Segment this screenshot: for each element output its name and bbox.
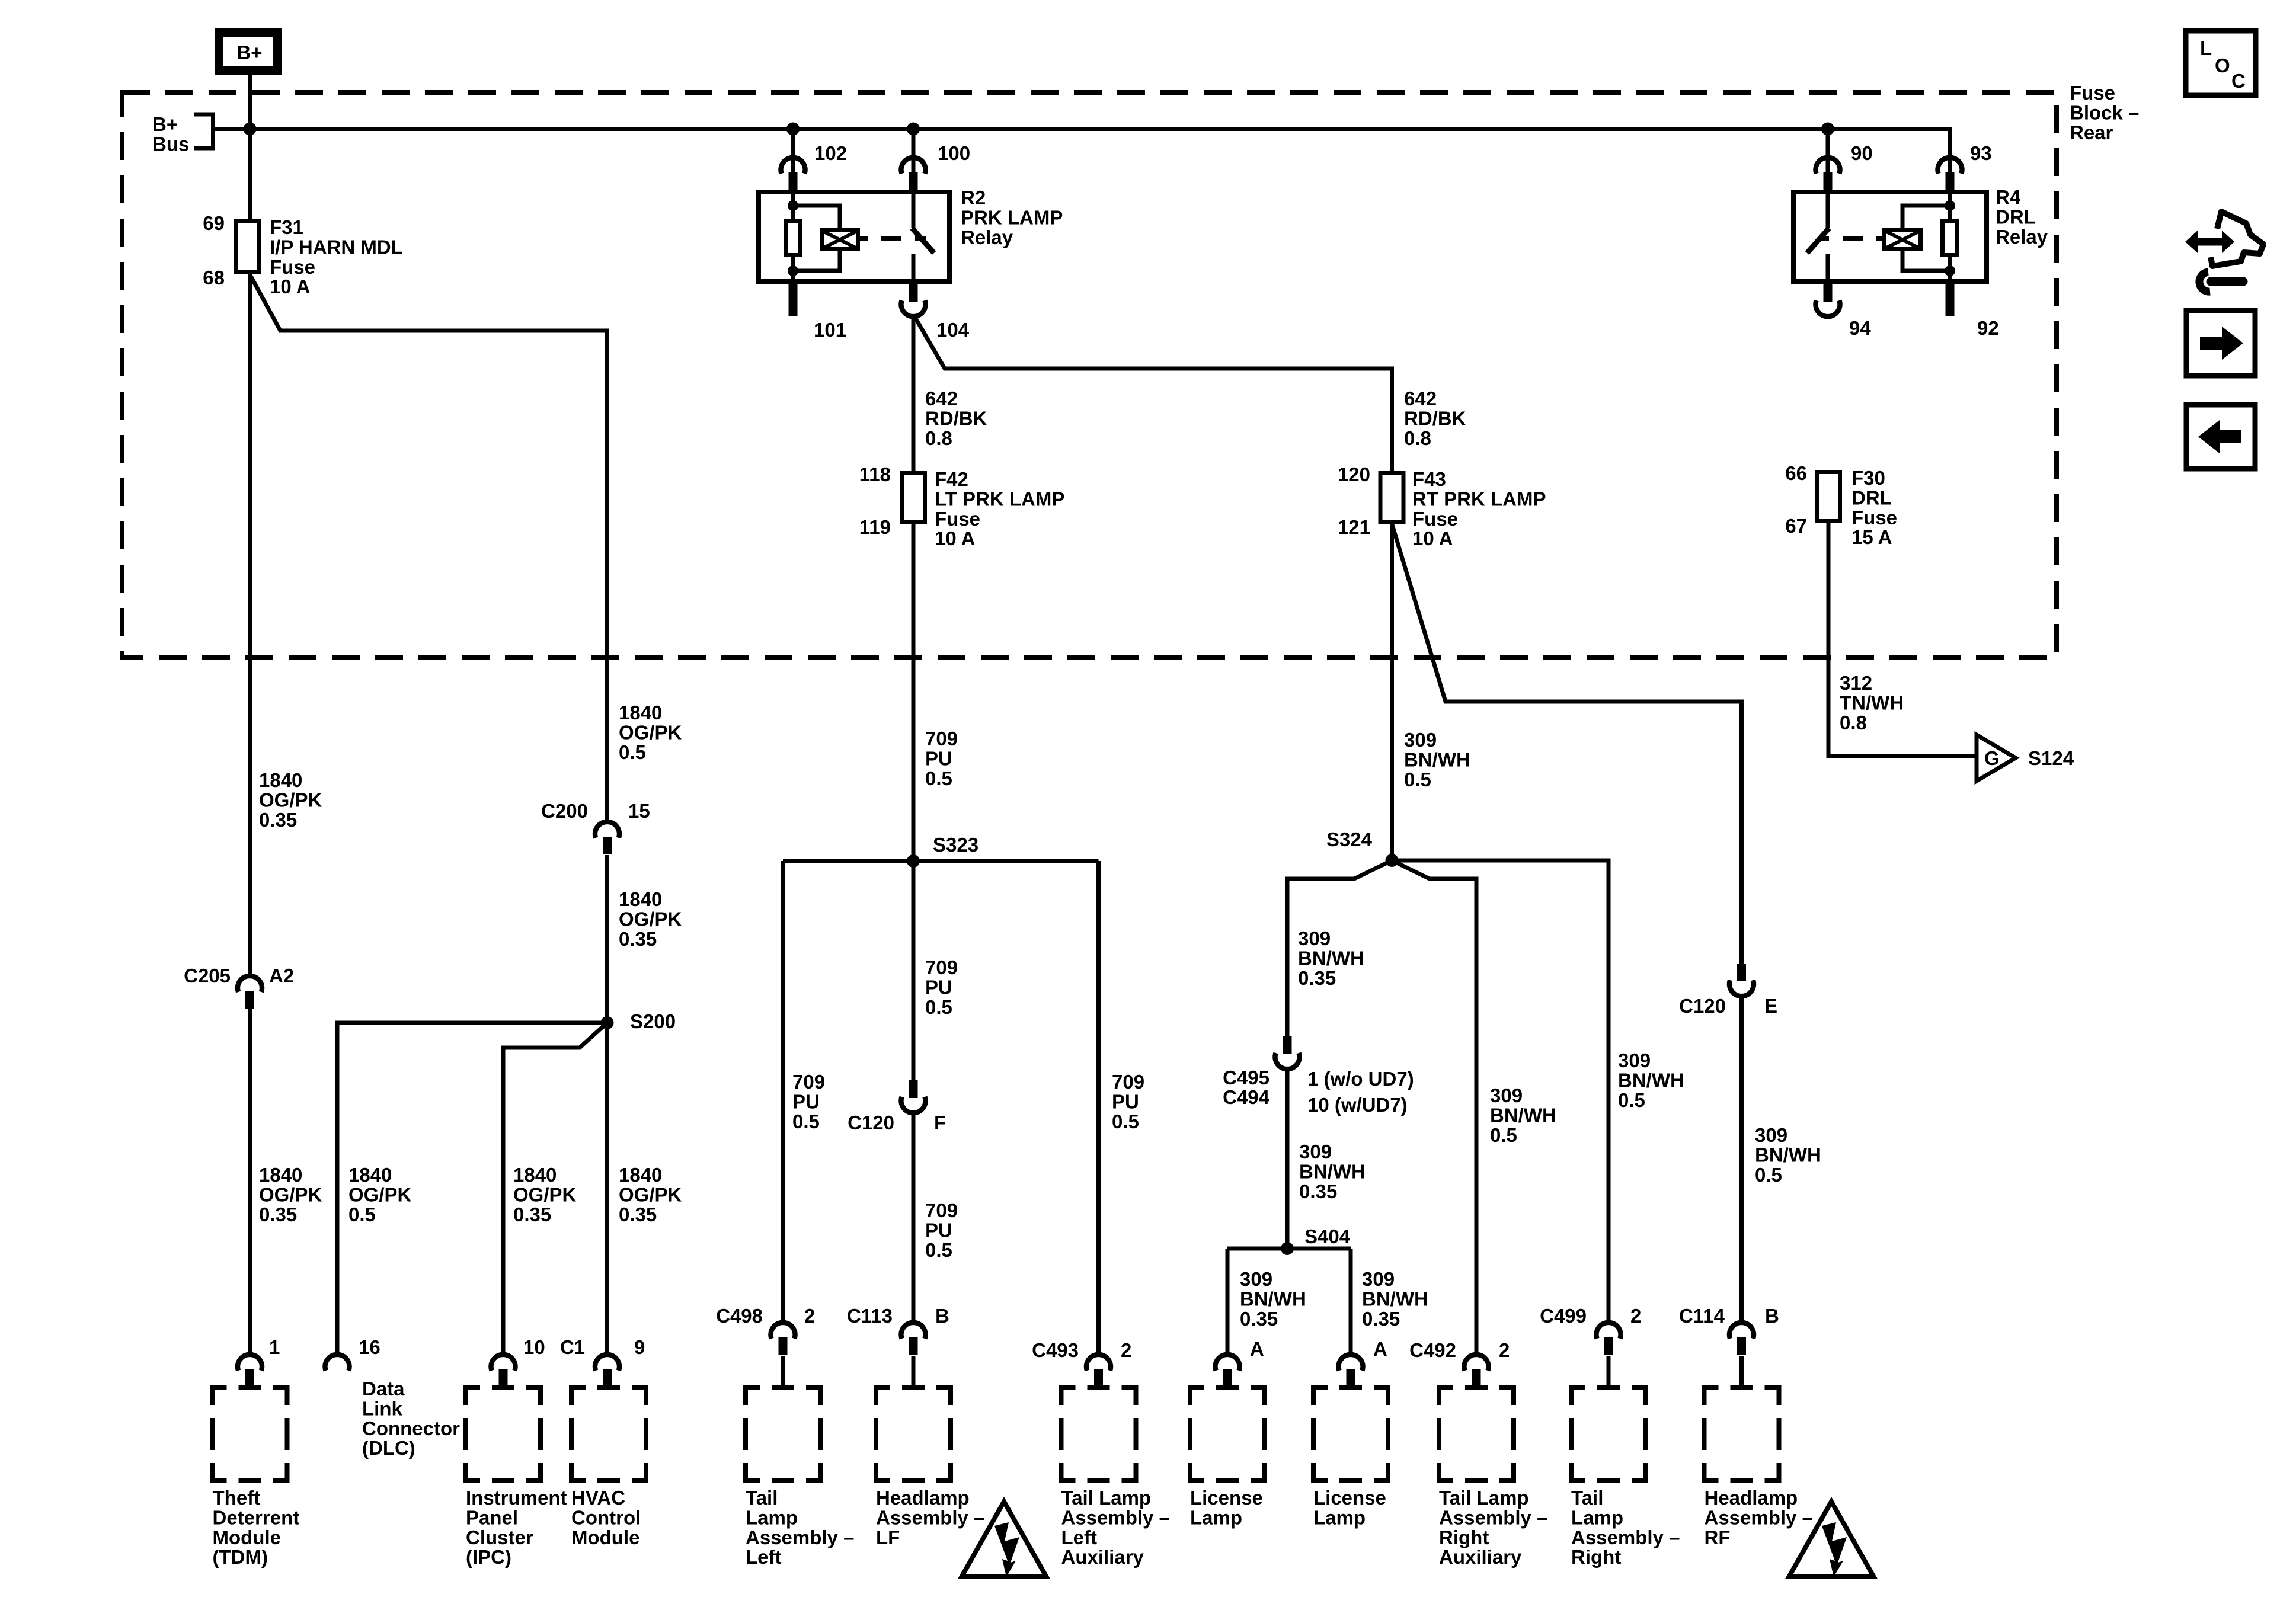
svg-text:Right: Right bbox=[1439, 1526, 1489, 1548]
label C492 bbox=[1409, 1339, 1456, 1361]
fuse F30 bbox=[1817, 472, 1840, 521]
svg-text:Lamp: Lamp bbox=[1190, 1506, 1242, 1528]
label Theft Deterrent Module (TDM) bbox=[213, 1487, 300, 1568]
label IPC pin 10 bbox=[523, 1336, 545, 1358]
wire S200 to HVAC bbox=[605, 1023, 609, 1355]
svg-text:90: 90 bbox=[1851, 142, 1873, 164]
svg-text:(DLC): (DLC) bbox=[362, 1437, 415, 1459]
warning triangle headlamp RF bbox=[1789, 1502, 1873, 1577]
svg-text:Assembly –: Assembly – bbox=[1439, 1506, 1547, 1528]
label Fuse Block - Rear bbox=[2070, 82, 2139, 143]
relay R4 coil bbox=[1885, 206, 1950, 271]
pin 94 label bbox=[1849, 317, 1871, 339]
pin 100 label bbox=[938, 142, 970, 164]
pin 121 label bbox=[1338, 516, 1370, 538]
wire 709 PU S323 to C498 bbox=[781, 861, 785, 1323]
pin 69 label bbox=[203, 212, 225, 234]
svg-text:Assembly –: Assembly – bbox=[1705, 1506, 1813, 1528]
svg-text:15 A: 15 A bbox=[1851, 526, 1892, 548]
svg-text:Assembly –: Assembly – bbox=[1571, 1526, 1680, 1548]
svg-text:F30: F30 bbox=[1851, 467, 1885, 489]
svg-text:(IPC): (IPC) bbox=[466, 1546, 511, 1568]
svg-text:0.5: 0.5 bbox=[1618, 1089, 1645, 1111]
svg-text:LT PRK LAMP: LT PRK LAMP bbox=[935, 488, 1064, 510]
svg-text:104: 104 bbox=[936, 319, 970, 341]
label 709 PU 0.5 left leg bbox=[792, 1071, 825, 1132]
svg-text:2: 2 bbox=[804, 1305, 815, 1327]
Tail Lamp Assembly Left box bbox=[746, 1388, 820, 1480]
svg-text:0.35: 0.35 bbox=[1299, 1180, 1337, 1202]
label TDM pin 1 bbox=[269, 1336, 280, 1358]
label C493 bbox=[1032, 1339, 1079, 1361]
label 1840 OG/PK 0.35 TDM upper bbox=[259, 769, 322, 831]
icon service manual arrow-wrench bbox=[2185, 212, 2263, 292]
connector C498 pin 2 bbox=[771, 1323, 795, 1386]
svg-text:Tail Lamp: Tail Lamp bbox=[1439, 1487, 1529, 1509]
svg-text:OG/PK: OG/PK bbox=[513, 1183, 577, 1205]
svg-text:309: 309 bbox=[1298, 927, 1331, 949]
svg-text:C492: C492 bbox=[1409, 1339, 1456, 1361]
label HVAC C1 bbox=[560, 1336, 585, 1358]
B+ Bus bracket bbox=[194, 114, 213, 148]
svg-text:93: 93 bbox=[1970, 142, 1992, 164]
svg-text:B+: B+ bbox=[236, 41, 262, 63]
label DLC pin 16 bbox=[359, 1336, 380, 1358]
pin 93 label bbox=[1970, 142, 1992, 164]
svg-text:Auxiliary: Auxiliary bbox=[1061, 1546, 1144, 1568]
label 1840 OG/PK 0.35 TDM lower bbox=[259, 1164, 322, 1225]
connector C493 pin 2 bbox=[1086, 1355, 1111, 1387]
label pin 10 w/UD7 bbox=[1307, 1094, 1408, 1116]
svg-text:0.35: 0.35 bbox=[259, 809, 297, 831]
svg-text:B: B bbox=[1765, 1305, 1779, 1327]
label F30 DRL Fuse 15 A bbox=[1851, 467, 1897, 548]
fuse block dashed outline bbox=[122, 92, 2057, 658]
wire S404 to license lamp left bbox=[1226, 1249, 1230, 1355]
wire 1840 OG/PK C200 to S200 bbox=[605, 855, 609, 1023]
junction dot bus at pin 90 bbox=[1821, 123, 1834, 136]
pin 68 label bbox=[203, 267, 225, 289]
pin 102 label bbox=[814, 142, 847, 164]
svg-text:C1: C1 bbox=[560, 1336, 585, 1358]
pin 118 label bbox=[859, 463, 891, 485]
wire bus to pin 100 bbox=[912, 129, 916, 172]
svg-text:F42: F42 bbox=[935, 468, 968, 490]
svg-text:S200: S200 bbox=[630, 1010, 676, 1032]
wire S324 right leg to C492 bbox=[1392, 860, 1477, 1355]
label C492 pin 2 bbox=[1499, 1339, 1510, 1361]
relay R4 junction dot top bbox=[1945, 200, 1955, 211]
svg-text:OG/PK: OG/PK bbox=[619, 1183, 682, 1205]
relay R4 actuator dashed link bbox=[1818, 236, 1884, 241]
fuse F42 bbox=[902, 473, 925, 523]
svg-text:BN/WH: BN/WH bbox=[1618, 1069, 1684, 1091]
svg-text:642: 642 bbox=[1404, 388, 1437, 409]
splice S404 bbox=[1281, 1242, 1294, 1255]
svg-text:C114: C114 bbox=[1679, 1305, 1725, 1327]
svg-text:C120: C120 bbox=[848, 1112, 894, 1134]
svg-text:HVAC: HVAC bbox=[571, 1487, 625, 1509]
connector C205 pin A2 bbox=[238, 976, 262, 1009]
label Data Link Connector (DLC) bbox=[362, 1378, 460, 1459]
svg-text:309: 309 bbox=[1299, 1141, 1332, 1163]
svg-text:0.5: 0.5 bbox=[1755, 1164, 1782, 1186]
warning triangle headlamp LF bbox=[962, 1502, 1046, 1577]
label C120 E bbox=[1679, 995, 1726, 1017]
svg-text:Left: Left bbox=[1061, 1526, 1098, 1548]
label C498 pin 2 bbox=[804, 1305, 815, 1327]
svg-text:BN/WH: BN/WH bbox=[1404, 748, 1470, 770]
label 309 BN/WH 0.5 above S324 bbox=[1404, 729, 1470, 790]
svg-text:10 (w/UD7): 10 (w/UD7) bbox=[1307, 1094, 1408, 1116]
svg-text:B+: B+ bbox=[152, 113, 178, 135]
svg-text:Module: Module bbox=[213, 1526, 281, 1548]
wire B+ feed down to fuse F31 bbox=[248, 75, 252, 219]
svg-text:1840: 1840 bbox=[259, 1164, 302, 1186]
svg-text:Rear: Rear bbox=[2070, 121, 2113, 143]
label 309 BN/WH 0.35 above C495 bbox=[1298, 927, 1364, 989]
svg-text:OG/PK: OG/PK bbox=[619, 721, 682, 743]
svg-text:1840: 1840 bbox=[619, 888, 662, 910]
wire S200 to DLC bbox=[337, 1023, 607, 1355]
svg-text:309: 309 bbox=[1490, 1084, 1523, 1106]
connector C499 pin 2 bbox=[1597, 1323, 1621, 1386]
relay R2 actuator dashed link bbox=[860, 236, 926, 241]
svg-text:PRK LAMP: PRK LAMP bbox=[961, 206, 1063, 228]
label 1840 OG/PK 0.35 mid bbox=[619, 888, 682, 950]
label pin F bbox=[934, 1112, 946, 1134]
wire S324 left leg to C495 bbox=[1287, 860, 1392, 1036]
junction dot B+ bus at F31 bbox=[244, 123, 257, 136]
label 309 BN/WH 0.35 license left bbox=[1240, 1268, 1306, 1330]
label C113 bbox=[847, 1305, 893, 1327]
svg-text:1840: 1840 bbox=[348, 1164, 392, 1186]
label Tail Lamp Assembly Right bbox=[1571, 1487, 1680, 1568]
svg-text:Bus: Bus bbox=[152, 133, 189, 155]
svg-text:9: 9 bbox=[634, 1336, 645, 1358]
svg-text:0.5: 0.5 bbox=[792, 1110, 820, 1132]
label License Lamp right bbox=[1313, 1487, 1386, 1528]
connector HVAC C1 pin 9 bbox=[595, 1355, 619, 1387]
License Lamp right box bbox=[1313, 1388, 1388, 1480]
label S200 bbox=[630, 1010, 676, 1032]
svg-text:0.5: 0.5 bbox=[925, 767, 952, 789]
svg-text:License: License bbox=[1190, 1487, 1263, 1509]
label R2 PRK LAMP Relay bbox=[961, 187, 1063, 248]
label C499 pin 2 bbox=[1630, 1305, 1641, 1327]
pin 67 label bbox=[1785, 515, 1807, 537]
svg-text:BN/WH: BN/WH bbox=[1755, 1144, 1821, 1166]
label HVAC pin 9 bbox=[634, 1336, 645, 1358]
svg-text:1840: 1840 bbox=[619, 702, 662, 724]
label 709 PU 0.5 below C120F bbox=[925, 1199, 958, 1261]
svg-text:309: 309 bbox=[1618, 1049, 1651, 1071]
label S124 bbox=[2028, 747, 2074, 769]
svg-text:BN/WH: BN/WH bbox=[1240, 1288, 1306, 1310]
svg-text:0.35: 0.35 bbox=[619, 1204, 657, 1225]
label B+ Bus bbox=[152, 113, 189, 155]
relay R2 junction dot top bbox=[788, 200, 798, 211]
License Lamp left box bbox=[1190, 1388, 1265, 1480]
wire 1840 OG/PK F31 to C205 bbox=[248, 274, 252, 977]
label 309 BN/WH 0.5 tail right bbox=[1618, 1049, 1684, 1111]
connector TDM pin 1 bbox=[238, 1355, 262, 1387]
wire bus to pin 102 bbox=[791, 129, 795, 172]
label C114 pin B bbox=[1765, 1305, 1779, 1327]
svg-text:0.5: 0.5 bbox=[1490, 1124, 1517, 1146]
relay R2 switch contacts bbox=[912, 192, 916, 281]
svg-text:Auxiliary: Auxiliary bbox=[1439, 1546, 1522, 1568]
svg-text:C120: C120 bbox=[1679, 995, 1726, 1017]
label Tail Lamp Assembly Left Auxiliary bbox=[1061, 1487, 1170, 1568]
Theft Deterrent Module (TDM) box bbox=[213, 1388, 287, 1480]
connector C113 pin B bbox=[901, 1323, 926, 1386]
wire S404 to license lamp right bbox=[1349, 1249, 1353, 1355]
svg-text:Link: Link bbox=[362, 1397, 402, 1419]
wire S404 horizontal bbox=[1227, 1247, 1351, 1251]
HVAC Control Module box bbox=[571, 1388, 646, 1480]
label C493 pin 2 bbox=[1121, 1339, 1131, 1361]
svg-text:101: 101 bbox=[814, 319, 846, 341]
label F31 I/P HARN MDL Fuse 10 A bbox=[270, 216, 403, 297]
svg-text:Right: Right bbox=[1571, 1546, 1621, 1568]
label pin A2 bbox=[269, 965, 294, 987]
pin 93 connector bbox=[1938, 158, 1962, 190]
svg-text:C: C bbox=[2231, 70, 2246, 92]
svg-text:PU: PU bbox=[925, 976, 952, 998]
svg-text:BN/WH: BN/WH bbox=[1299, 1160, 1366, 1182]
svg-text:Tail Lamp: Tail Lamp bbox=[1061, 1487, 1152, 1509]
svg-text:OG/PK: OG/PK bbox=[259, 789, 322, 811]
label 309 BN/WH 0.5 above C120E bbox=[1755, 1124, 1821, 1186]
svg-text:67: 67 bbox=[1785, 515, 1807, 537]
svg-text:642: 642 bbox=[925, 388, 958, 409]
pin 92 label bbox=[1977, 317, 1999, 339]
label S404 bbox=[1304, 1225, 1351, 1247]
svg-text:2: 2 bbox=[1121, 1339, 1131, 1361]
label 312 TN/WH 0.8 bbox=[1840, 672, 1904, 734]
wire 709 PU F42 to S323 bbox=[912, 524, 916, 1080]
wire 309 BN/WH C495 to S404 bbox=[1285, 1068, 1290, 1249]
svg-text:Fuse: Fuse bbox=[2070, 82, 2115, 104]
relay R4 junction dot bottom bbox=[1945, 265, 1955, 276]
svg-text:Lamp: Lamp bbox=[1313, 1506, 1366, 1528]
label 709 PU 0.5 right leg bbox=[1112, 1071, 1144, 1132]
connector C120 pin F bbox=[901, 1080, 926, 1113]
svg-text:RF: RF bbox=[1705, 1526, 1731, 1548]
svg-text:Fuse: Fuse bbox=[270, 256, 315, 278]
svg-text:PU: PU bbox=[792, 1090, 820, 1112]
svg-text:0.5: 0.5 bbox=[925, 1239, 952, 1261]
svg-text:0.35: 0.35 bbox=[1298, 967, 1336, 989]
svg-text:709: 709 bbox=[925, 956, 958, 978]
pin 120 label bbox=[1338, 463, 1370, 485]
pin 90 connector bbox=[1816, 158, 1840, 190]
svg-text:15: 15 bbox=[628, 800, 650, 822]
label C495 C494 bbox=[1223, 1067, 1270, 1108]
svg-text:120: 120 bbox=[1338, 463, 1370, 485]
icon next page arrow bbox=[2186, 311, 2255, 376]
label C498 bbox=[716, 1305, 763, 1327]
label C200 bbox=[541, 800, 588, 822]
wire B+ bus bbox=[213, 127, 1952, 172]
label 642 RD/BK 0.8 right bbox=[1404, 388, 1466, 449]
label 1840 OG/PK 0.35 IPC bbox=[513, 1164, 577, 1225]
svg-text:PU: PU bbox=[925, 747, 952, 769]
splice S323 bbox=[907, 854, 920, 868]
relay R2 switch blade bbox=[912, 228, 934, 253]
svg-text:S124: S124 bbox=[2028, 747, 2074, 769]
Instrument Panel Cluster (IPC) box bbox=[466, 1388, 541, 1480]
splice S200 bbox=[601, 1016, 614, 1029]
relay R2 junction dot bottom bbox=[788, 265, 798, 276]
label License Lamp left bbox=[1190, 1487, 1263, 1528]
svg-text:1: 1 bbox=[269, 1336, 280, 1358]
svg-text:F: F bbox=[934, 1112, 946, 1134]
svg-text:RT PRK LAMP: RT PRK LAMP bbox=[1412, 488, 1546, 510]
label F43 RT PRK LAMP Fuse 10 A bbox=[1412, 468, 1546, 549]
label C113 pin B bbox=[935, 1305, 949, 1327]
fuse F31 bbox=[236, 222, 259, 273]
svg-text:0.5: 0.5 bbox=[1112, 1110, 1139, 1132]
label Tail Lamp Assembly Left bbox=[746, 1487, 854, 1568]
wire 709 PU S323 to C493 bbox=[1096, 861, 1101, 1355]
svg-text:RD/BK: RD/BK bbox=[925, 407, 987, 429]
pin 104 label bbox=[936, 319, 970, 341]
svg-text:Instrument: Instrument bbox=[466, 1487, 567, 1509]
Tail Lamp Assembly Left Auxiliary box bbox=[1061, 1388, 1136, 1480]
svg-text:LF: LF bbox=[876, 1526, 900, 1548]
wire S323 horizontal bbox=[783, 859, 1099, 863]
svg-text:119: 119 bbox=[859, 516, 891, 538]
svg-text:0.35: 0.35 bbox=[1240, 1308, 1278, 1330]
relay R2 box bbox=[759, 192, 949, 281]
svg-text:S323: S323 bbox=[933, 834, 978, 856]
wire 1840 OG/PK C205 to TDM bbox=[248, 1009, 252, 1355]
label HVAC Control Module bbox=[571, 1487, 641, 1548]
label C499 bbox=[1540, 1305, 1587, 1327]
svg-text:309: 309 bbox=[1404, 729, 1437, 751]
svg-text:Fuse: Fuse bbox=[1851, 507, 1897, 529]
label 309 BN/WH 0.35 license right bbox=[1362, 1268, 1428, 1330]
svg-text:Module: Module bbox=[571, 1526, 639, 1548]
svg-text:S404: S404 bbox=[1304, 1225, 1351, 1247]
svg-text:0.35: 0.35 bbox=[1362, 1308, 1400, 1330]
svg-text:Lamp: Lamp bbox=[1571, 1506, 1623, 1528]
svg-text:A2: A2 bbox=[269, 965, 294, 987]
label license right pin A bbox=[1373, 1338, 1387, 1360]
svg-text:Lamp: Lamp bbox=[746, 1506, 798, 1528]
connector C200 pin 15 bbox=[595, 822, 619, 854]
splice S324 bbox=[1386, 854, 1399, 867]
svg-text:1840: 1840 bbox=[259, 769, 302, 791]
svg-text:Control: Control bbox=[571, 1506, 641, 1528]
svg-text:Fuse: Fuse bbox=[935, 508, 980, 530]
svg-text:0.5: 0.5 bbox=[925, 996, 952, 1018]
svg-text:94: 94 bbox=[1849, 317, 1871, 339]
connector DLC pin 16 bbox=[325, 1355, 350, 1371]
wire bus to pin 90 bbox=[1826, 129, 1830, 172]
relay R4 switch contacts bbox=[1826, 192, 1830, 281]
pin 92 stub bbox=[1946, 281, 1955, 316]
svg-text:69: 69 bbox=[203, 212, 225, 234]
svg-text:10: 10 bbox=[523, 1336, 545, 1358]
svg-text:C113: C113 bbox=[847, 1305, 893, 1327]
label pin 15 bbox=[628, 800, 650, 822]
svg-text:Assembly –: Assembly – bbox=[1061, 1506, 1170, 1528]
svg-text:Relay: Relay bbox=[1996, 226, 2048, 248]
svg-text:1 (w/o UD7): 1 (w/o UD7) bbox=[1307, 1068, 1414, 1090]
pin 94 connector bbox=[1816, 284, 1840, 316]
svg-text:0.5: 0.5 bbox=[348, 1204, 376, 1225]
svg-text:(TDM): (TDM) bbox=[213, 1546, 268, 1568]
svg-text:10 A: 10 A bbox=[1412, 527, 1453, 549]
connector C495 C494 bbox=[1275, 1036, 1300, 1069]
svg-text:Assembly –: Assembly – bbox=[746, 1526, 854, 1548]
svg-text:0.35: 0.35 bbox=[619, 928, 657, 950]
Headlamp Assembly LF box bbox=[876, 1388, 951, 1480]
svg-text:0.35: 0.35 bbox=[259, 1204, 297, 1225]
svg-text:0.5: 0.5 bbox=[1404, 769, 1431, 790]
label R4 DRL Relay bbox=[1996, 186, 2048, 248]
label 709 PU 0.5 above C120F bbox=[925, 956, 958, 1018]
junction dot bus at pin 102 bbox=[786, 123, 800, 136]
svg-text:16: 16 bbox=[359, 1336, 380, 1358]
label Instrument Panel Cluster (IPC) bbox=[466, 1487, 567, 1568]
svg-text:B: B bbox=[935, 1305, 949, 1327]
relay R4 box bbox=[1793, 192, 1987, 281]
svg-text:PU: PU bbox=[925, 1219, 952, 1241]
label pin E bbox=[1764, 995, 1777, 1017]
wire 642 RD/BK pin104 to F42 bbox=[912, 315, 916, 471]
svg-text:102: 102 bbox=[814, 142, 847, 164]
label F42 LT PRK LAMP Fuse 10 A bbox=[935, 468, 1064, 549]
svg-text:1840: 1840 bbox=[619, 1164, 662, 1186]
pin 100 connector bbox=[901, 158, 926, 190]
svg-text:I/P HARN MDL: I/P HARN MDL bbox=[270, 236, 403, 258]
svg-text:709: 709 bbox=[925, 728, 958, 750]
svg-text:2: 2 bbox=[1499, 1339, 1510, 1361]
label Tail Lamp Assembly Right Auxiliary bbox=[1439, 1487, 1547, 1568]
label C120 F bbox=[848, 1112, 894, 1134]
label 309 BN/WH 0.5 C492 leg bbox=[1490, 1084, 1556, 1146]
wire 309 BN/WH C120E to C114 bbox=[1739, 995, 1744, 1323]
svg-text:Fuse: Fuse bbox=[1412, 508, 1458, 530]
connector license lamp left pin A bbox=[1216, 1355, 1240, 1387]
label 309 BN/WH 0.35 above S404 bbox=[1299, 1141, 1366, 1202]
svg-text:C200: C200 bbox=[541, 800, 588, 822]
svg-text:License: License bbox=[1313, 1487, 1386, 1509]
pin 66 label bbox=[1785, 462, 1807, 484]
svg-text:OG/PK: OG/PK bbox=[259, 1183, 322, 1205]
svg-text:0.8: 0.8 bbox=[925, 427, 952, 449]
Headlamp Assembly RF box bbox=[1705, 1388, 1779, 1480]
label pin 1 w/o UD7 bbox=[1307, 1068, 1414, 1090]
svg-text:L: L bbox=[2200, 37, 2212, 59]
pin 101 label bbox=[814, 319, 846, 341]
svg-text:BN/WH: BN/WH bbox=[1490, 1104, 1556, 1126]
svg-text:RD/BK: RD/BK bbox=[1404, 407, 1466, 429]
svg-text:C493: C493 bbox=[1032, 1339, 1079, 1361]
icon previous page arrow bbox=[2186, 405, 2255, 469]
label Headlamp Assembly LF bbox=[876, 1487, 984, 1548]
svg-text:DRL: DRL bbox=[1851, 486, 1892, 508]
label S324 bbox=[1326, 828, 1373, 850]
label 1840 OG/PK 0.5 DLC bbox=[348, 1164, 412, 1225]
svg-text:0.8: 0.8 bbox=[1404, 427, 1431, 449]
svg-text:R4: R4 bbox=[1996, 186, 2021, 208]
svg-text:A: A bbox=[1250, 1338, 1264, 1360]
